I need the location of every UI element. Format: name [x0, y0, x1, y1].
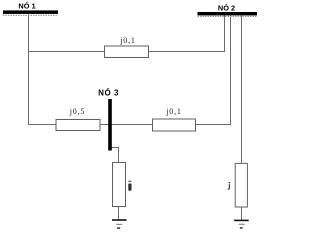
svg-text:NÓ 2: NÓ 2 — [218, 4, 235, 13]
svg-text:NÓ 1: NÓ 1 — [18, 2, 35, 11]
ground at right load: top plate — [234, 220, 249, 222]
reactance box j0,5 middle line left — [56, 120, 100, 131]
load label j at bus NÓ 2 — [228, 182, 230, 189]
svg-text:j0,1: j0,1 — [165, 107, 181, 116]
wire vertical from bus NÓ 2 down to right load — [241, 15, 243, 164]
load box at bus NÓ 3 — [113, 163, 126, 207]
ground at left load: middle plate — [116, 224, 122, 225]
wire middle horizontal line NÓ 1 through NÓ 3 to NÓ 2 — [28, 124, 231, 126]
load box at bus NÓ 2 — [235, 163, 247, 207]
svg-text:NÓ 3: NÓ 3 — [98, 89, 119, 98]
bus bar NÓ 1 — [3, 10, 58, 14]
wire top horizontal line NÓ 1 to NÓ 2 — [28, 51, 225, 53]
wire vertical from bus NÓ 2 to top line — [224, 15, 226, 52]
ground at right load: bottom plate — [240, 227, 243, 229]
ground at right load: middle plate — [239, 224, 245, 225]
load label at bus NÓ 3 (rotated j1,0) — [128, 181, 131, 192]
svg-text:j0,5: j0,5 — [69, 107, 85, 116]
wire from left load to ground — [118, 207, 120, 220]
svg-text:j0,1: j0,1 — [119, 36, 135, 45]
bus bar NÓ 2 — [198, 12, 258, 15]
wire from bus NÓ 3 to left load — [111, 148, 119, 163]
wire from bus NÓ 1 down to middle line — [28, 14, 30, 125]
ground at left load: bottom plate — [117, 227, 120, 229]
bus bar NÓ 1 hatch — [3, 14, 58, 16]
reactance box j0,1 top line — [105, 46, 149, 58]
ground at left load: top plate — [112, 219, 127, 221]
wire vertical from bus NÓ 2 to middle line — [230, 15, 232, 125]
wire from right load to ground — [241, 207, 243, 220]
reactance box j0,1 middle line right — [153, 119, 196, 131]
bus bar NÓ 3 — [108, 99, 112, 151]
bus bar NÓ 2 hatch — [198, 15, 258, 17]
